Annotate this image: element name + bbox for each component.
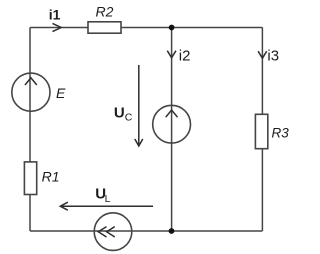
svg-text:U: U	[114, 104, 125, 121]
svg-text:i2: i2	[179, 47, 191, 64]
svg-text:E: E	[56, 85, 66, 101]
svg-text:R2: R2	[96, 3, 114, 19]
svg-text:R1: R1	[42, 169, 60, 185]
svg-text:i1: i1	[49, 6, 61, 22]
svg-text:R3: R3	[272, 126, 290, 141]
svg-text:L: L	[105, 193, 111, 205]
svg-text:i3: i3	[267, 47, 279, 64]
svg-text:C: C	[125, 112, 133, 124]
